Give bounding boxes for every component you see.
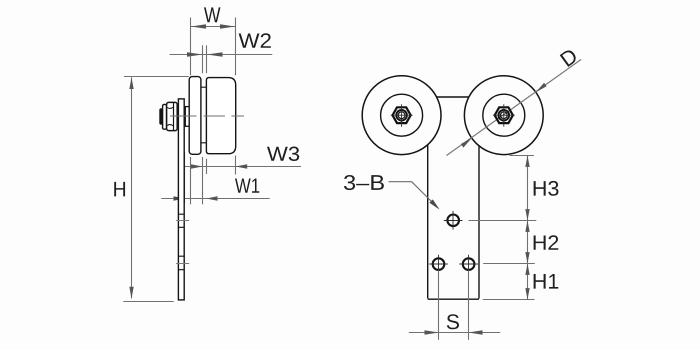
wheel left hub (381, 94, 423, 136)
arrow W left (191, 24, 206, 28)
plate hole marks lower (side view) (178, 256, 184, 270)
nut (side view) (167, 102, 178, 130)
extension line W2 right (206, 45, 208, 73)
hanger plate (side view) (178, 99, 184, 300)
arrow W1 left (174, 196, 185, 200)
arrow W1 right (206, 196, 217, 200)
bracket body (428, 145, 479, 300)
plate hole tick lower (176, 263, 189, 265)
bracket top edge (436, 96, 469, 98)
extension line W left (190, 18, 192, 76)
arrow 3-B (429, 199, 439, 209)
bolt end cap (dark) (159, 108, 163, 124)
hex nut left wheel (393, 107, 411, 123)
label H2 (534, 235, 559, 250)
extension line bottom (H) (123, 301, 173, 303)
wheel right hub (483, 94, 525, 136)
extension line W right (235, 18, 237, 76)
arrow S right (468, 330, 482, 334)
wheel flange disc (side view) (189, 77, 201, 155)
dimension line S (409, 332, 501, 334)
extension line S right (468, 270, 470, 340)
arrow H2 bottom (525, 252, 529, 263)
label W1 (235, 178, 259, 192)
extension tick x206.7 (W3) (206, 159, 208, 174)
hole lower-left (433, 258, 445, 270)
crosshair right wheel (493, 104, 515, 127)
label 3-B (344, 175, 384, 190)
wheel left (front) (362, 76, 441, 155)
dimension line D (diagonal) (447, 60, 582, 156)
arrow H bottom (129, 287, 133, 299)
arrow H3 bottom (525, 209, 529, 220)
label W2 (239, 33, 271, 48)
label W (204, 7, 220, 22)
arrow D upper (536, 83, 547, 93)
arrow W right (220, 24, 235, 28)
spacer washer (185, 107, 189, 127)
wheel main disc (side view) (206, 78, 235, 154)
hole lower-right (463, 258, 475, 270)
axle center line (170, 115, 244, 117)
arrow H3 top (525, 156, 529, 167)
hex nut right wheel (495, 107, 513, 123)
arrow H top (129, 77, 133, 89)
extension tick x190.1 (190, 157, 192, 204)
dimension line W (191, 26, 236, 28)
arrow S left (425, 330, 439, 334)
plate hole marks upper (side view) (178, 214, 184, 227)
arrow D lower (461, 138, 472, 148)
leader 3-B (389, 182, 438, 208)
arrow W2 right (207, 52, 223, 56)
arrow H1 top (525, 264, 529, 275)
extension line holes lower (483, 263, 535, 265)
hole lower-right crosshair (459, 255, 478, 274)
plate hole tick upper (176, 220, 189, 222)
arrow W3 left (191, 164, 203, 168)
extension line hole upper (469, 220, 537, 222)
dimension line H3/H2/H1 (527, 156, 529, 300)
nut chamfer arcs (167, 107, 173, 126)
arrow H2 top (525, 221, 529, 232)
arrow W2 left (187, 52, 203, 56)
label D (560, 48, 579, 67)
arrow W3 right (235, 164, 247, 168)
dimension line W3 (178, 166, 301, 168)
arrow H1 bottom (525, 288, 529, 299)
crosshair left wheel (391, 104, 413, 127)
axle neck lines in groove (201, 87, 207, 143)
hole upper crosshair (444, 211, 463, 230)
label H (114, 182, 125, 197)
extension tick x235.8 (W3 right) (235, 156, 237, 175)
label H1 (534, 274, 559, 289)
extension line bracket bottom (483, 299, 535, 301)
nut facet line (173, 103, 175, 130)
dimension line W2 (170, 54, 273, 56)
extension line S left (438, 270, 440, 340)
extension line W2 left (202, 45, 204, 73)
dimension line H (131, 77, 133, 298)
bolt washer (163, 104, 167, 129)
label S (447, 314, 459, 329)
extension line top (H) (124, 76, 189, 78)
dimension line W1 (161, 198, 270, 200)
hole lower-left crosshair (429, 255, 448, 274)
hole upper (447, 215, 459, 227)
label H3 (534, 181, 559, 196)
label W3 (267, 147, 299, 161)
extension tick x184.9 (W1 left) (184, 152, 186, 204)
wheel right (front) (464, 76, 543, 155)
extension line H3 top (510, 155, 535, 157)
extension tick x202.1 (202, 157, 204, 204)
